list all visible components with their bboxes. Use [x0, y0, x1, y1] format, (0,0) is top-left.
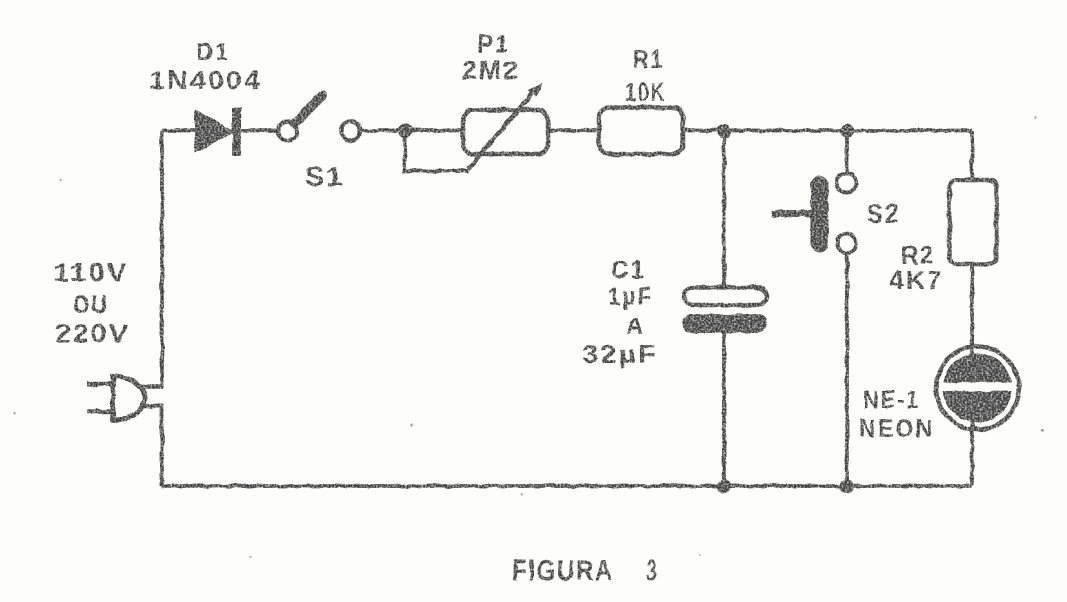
svg-text:10K: 10K — [625, 77, 666, 107]
svg-text:OU: OU — [73, 291, 108, 319]
svg-text:D1: D1 — [196, 39, 230, 66]
svg-text:110V: 110V — [53, 259, 129, 287]
svg-text:2M2: 2M2 — [462, 55, 520, 85]
svg-text:NE-1: NE-1 — [863, 386, 920, 414]
svg-text:3: 3 — [646, 555, 658, 587]
svg-text:32µF: 32µF — [582, 339, 658, 369]
svg-text:FIGURA: FIGURA — [512, 555, 614, 587]
svg-text:R1: R1 — [633, 44, 664, 74]
svg-text:A: A — [626, 313, 645, 340]
svg-text:1N4004: 1N4004 — [149, 65, 262, 95]
svg-text:1µF: 1µF — [608, 283, 653, 311]
svg-text:220V: 220V — [55, 318, 130, 348]
svg-text:C1: C1 — [611, 256, 646, 284]
svg-text:4K7: 4K7 — [889, 265, 944, 295]
svg-text:NEON: NEON — [859, 415, 934, 443]
svg-text:S1: S1 — [305, 161, 344, 192]
svg-text:S2: S2 — [867, 199, 900, 229]
